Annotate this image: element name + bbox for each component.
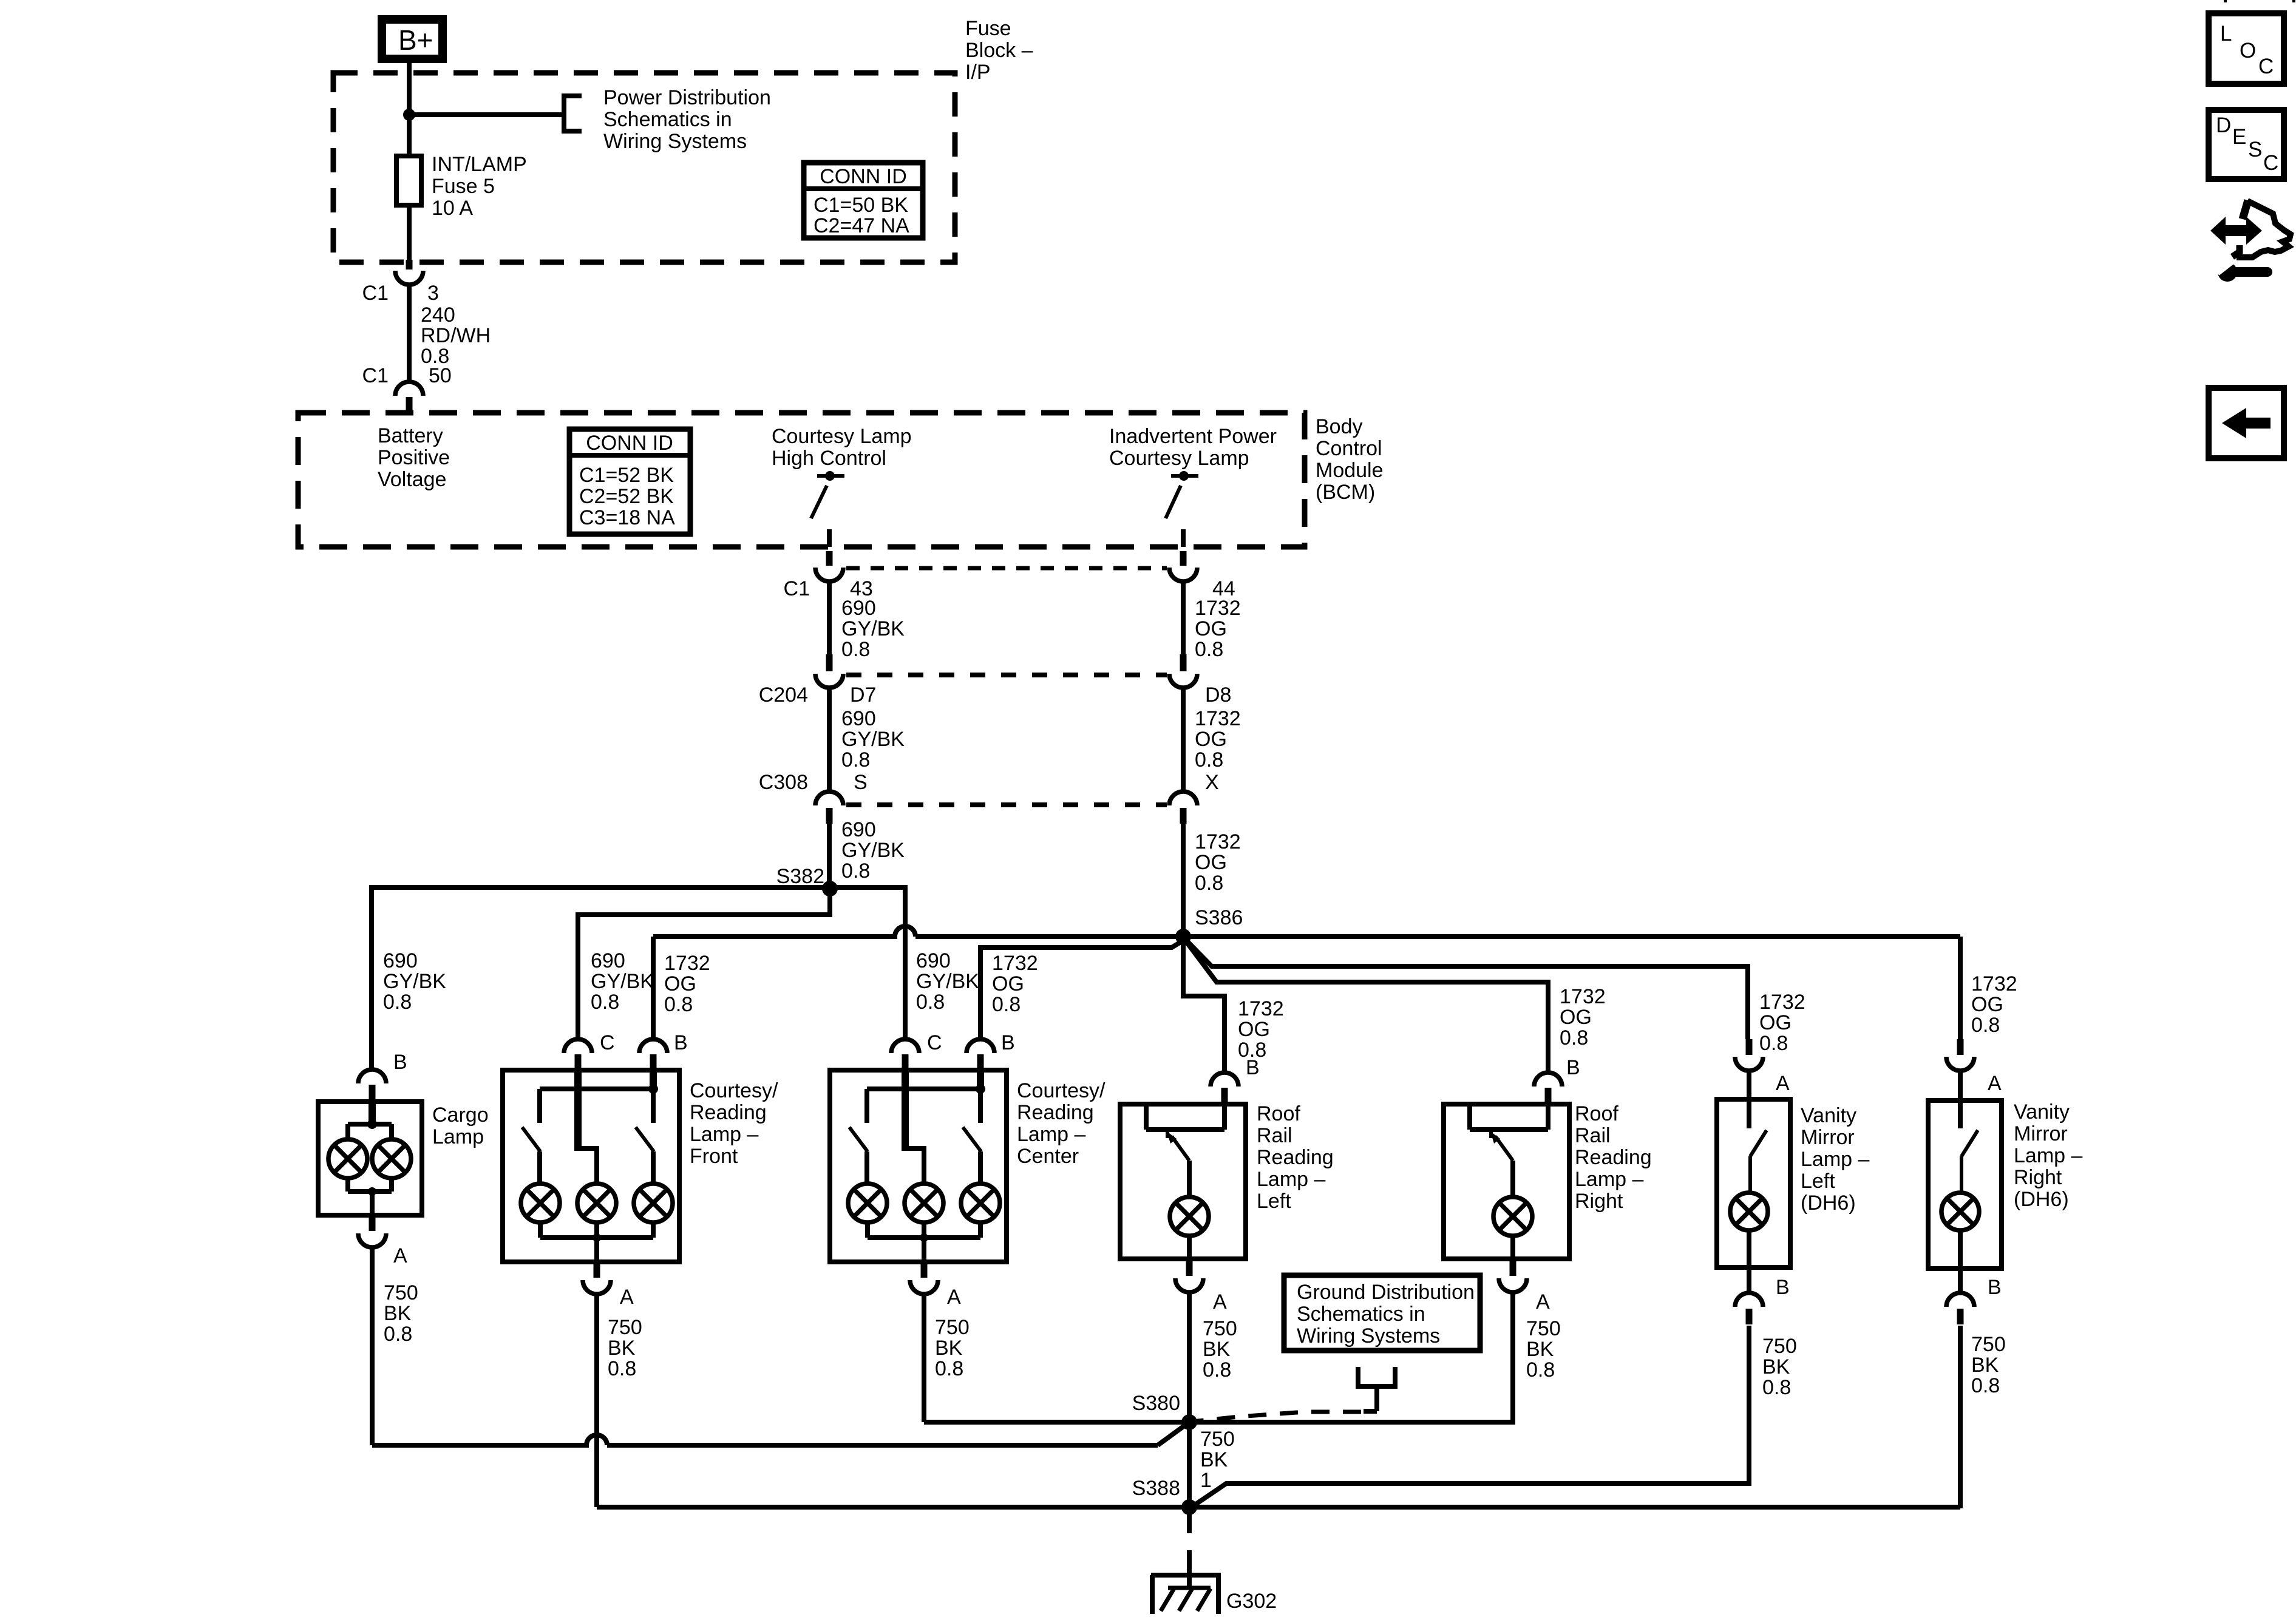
- wire S382 to front lamp C: [578, 889, 830, 1039]
- svg-text:S382: S382: [776, 865, 824, 888]
- wire S386 main bus: [653, 926, 1960, 937]
- svg-text:GY/BK: GY/BK: [841, 728, 905, 751]
- connector C1 pin 44: [1180, 551, 1187, 566]
- fuse F5 INT/LAMP: [396, 156, 421, 205]
- wire S388 bus: [597, 1505, 1960, 1510]
- svg-text:GY/BK: GY/BK: [841, 839, 905, 862]
- connector front pin B: [639, 1039, 667, 1053]
- svg-text:L: L: [2220, 22, 2232, 46]
- dashed connector link C308: [846, 802, 1167, 807]
- svg-text:1732: 1732: [664, 952, 710, 975]
- svg-text:Schematics in: Schematics in: [603, 108, 732, 131]
- svg-text:D: D: [2216, 114, 2231, 137]
- switch inadvertent power courtesy lamp: [1171, 474, 1198, 478]
- svg-text:Lamp –: Lamp –: [1257, 1168, 1325, 1191]
- svg-text:E: E: [2232, 125, 2246, 149]
- svg-text:C2=52 BK: C2=52 BK: [579, 485, 674, 508]
- svg-text:0.8: 0.8: [1203, 1358, 1231, 1381]
- svg-text:1732: 1732: [1560, 985, 1606, 1008]
- svg-text:A: A: [1776, 1072, 1790, 1095]
- wire B+ to fuse: [407, 63, 412, 266]
- svg-text:(DH6): (DH6): [1801, 1192, 1856, 1215]
- svg-text:C308: C308: [759, 771, 808, 794]
- svg-text:Fuse: Fuse: [965, 17, 1011, 40]
- vanity mirror lamp right: [1957, 1039, 1964, 1055]
- svg-text:BK: BK: [1971, 1354, 1999, 1377]
- svg-text:0.8: 0.8: [608, 1357, 636, 1380]
- svg-text:750: 750: [1203, 1317, 1237, 1340]
- wire center 750 BK: [922, 1294, 926, 1422]
- svg-text:INT/LAMP: INT/LAMP: [432, 153, 527, 176]
- svg-text:1732: 1732: [1759, 991, 1805, 1014]
- dotted connector link C1: [846, 566, 1167, 571]
- svg-text:C2=47 NA: C2=47 NA: [813, 214, 909, 237]
- reference bracket power distribution: [564, 96, 582, 131]
- svg-text:A: A: [1988, 1072, 2002, 1095]
- svg-text:Reading: Reading: [690, 1101, 767, 1124]
- svg-text:Ground Distribution: Ground Distribution: [1297, 1281, 1475, 1304]
- wire S382 to cargo lamp: [372, 887, 830, 1070]
- svg-text:B: B: [1988, 1276, 2002, 1299]
- svg-text:O: O: [2240, 39, 2256, 63]
- splice S386: [1175, 929, 1191, 944]
- center lamp box: [830, 1070, 1007, 1262]
- svg-text:BK: BK: [1526, 1338, 1554, 1361]
- svg-text:690: 690: [841, 818, 876, 841]
- wire S382 to center lamp C: [830, 887, 905, 1039]
- connector C308 pin X: [1169, 792, 1197, 805]
- bulb front left: [521, 1184, 560, 1222]
- wire 1732 OG C308 to S386: [1181, 824, 1186, 937]
- icon DESC box: [2209, 110, 2284, 179]
- connector C1 pin 50 (BCM): [395, 382, 423, 396]
- svg-text:Module: Module: [1316, 459, 1384, 482]
- svg-text:D7: D7: [850, 683, 876, 707]
- svg-text:Right: Right: [2014, 1166, 2062, 1189]
- svg-text:A: A: [1536, 1290, 1550, 1314]
- wire 1732 OG C204 to C308: [1181, 688, 1186, 792]
- svg-text:Left: Left: [1801, 1170, 1835, 1193]
- svg-text:Mirror: Mirror: [2014, 1122, 2068, 1145]
- svg-text:C1=52 BK: C1=52 BK: [579, 464, 674, 487]
- svg-text:OG: OG: [1238, 1018, 1270, 1041]
- ground G302 symbol: [1151, 1573, 1221, 1578]
- svg-text:C1: C1: [362, 282, 389, 305]
- connector C1 pin 3 (fuse block): [406, 260, 413, 269]
- connector center pin B: [966, 1039, 994, 1053]
- center lamp bottom bus: [865, 1221, 870, 1238]
- front lamp switch right: [651, 1089, 656, 1123]
- splice S382: [822, 881, 838, 897]
- svg-text:Reading: Reading: [1257, 1146, 1334, 1169]
- connector front pin A: [594, 1263, 600, 1278]
- svg-text:OG: OG: [992, 972, 1024, 995]
- bulb front middle: [577, 1184, 616, 1222]
- splice S380: [1181, 1414, 1197, 1430]
- svg-text:690: 690: [383, 949, 418, 972]
- svg-text:690: 690: [841, 707, 876, 730]
- svg-text:C1: C1: [784, 577, 810, 600]
- connector C204 pin D7: [826, 654, 833, 671]
- svg-text:750: 750: [1200, 1428, 1235, 1451]
- svg-text:C1: C1: [362, 364, 389, 387]
- svg-text:Mirror: Mirror: [1801, 1126, 1855, 1149]
- wire 690 GY/BK C204 to C308: [827, 688, 832, 792]
- dashed connector link C204: [846, 673, 1167, 677]
- svg-text:750: 750: [1526, 1317, 1561, 1340]
- icon diagnostic tool: [2210, 217, 2262, 245]
- svg-text:C: C: [2263, 151, 2278, 175]
- svg-text:Reading: Reading: [1575, 1146, 1652, 1169]
- svg-text:BK: BK: [935, 1337, 963, 1360]
- svg-text:C204: C204: [759, 683, 808, 707]
- wire front 750 BK: [594, 1294, 599, 1507]
- svg-text:OG: OG: [1195, 617, 1227, 640]
- CONN ID table fuse block: [804, 163, 923, 238]
- svg-text:CONN ID: CONN ID: [586, 432, 673, 455]
- svg-text:OG: OG: [1759, 1011, 1792, 1034]
- svg-text:Vanity: Vanity: [1801, 1104, 1856, 1127]
- wire S386 to roof rail left: [1183, 937, 1224, 1073]
- ground distribution reference box: [1284, 1275, 1480, 1351]
- wire S386 to vanity right (drop): [1958, 937, 1963, 1039]
- svg-text:1732: 1732: [1238, 997, 1284, 1020]
- svg-text:10 A: 10 A: [432, 197, 473, 220]
- svg-text:C1=50 BK: C1=50 BK: [813, 194, 908, 217]
- svg-text:S380: S380: [1132, 1392, 1180, 1415]
- connector front pin C: [564, 1039, 592, 1053]
- svg-text:OG: OG: [1560, 1006, 1592, 1029]
- svg-text:0.8: 0.8: [1195, 638, 1223, 661]
- center lamp internal B bus: [977, 1070, 984, 1089]
- svg-text:A: A: [620, 1286, 634, 1309]
- svg-text:OG: OG: [664, 972, 696, 995]
- svg-text:CONN ID: CONN ID: [820, 165, 907, 188]
- svg-text:Courtesy/: Courtesy/: [1017, 1079, 1106, 1102]
- svg-text:3: 3: [427, 282, 439, 305]
- svg-text:Fuse 5: Fuse 5: [432, 175, 495, 198]
- svg-text:Vanity: Vanity: [2014, 1100, 2070, 1124]
- wire roof left 750 BK: [1187, 1292, 1192, 1422]
- wire to power distribution reference: [409, 112, 564, 117]
- svg-text:690: 690: [916, 949, 951, 972]
- node junction on B+ wire: [403, 109, 415, 121]
- svg-text:OG: OG: [1971, 993, 2003, 1016]
- svg-text:Inadvertent Power: Inadvertent Power: [1109, 425, 1277, 448]
- svg-text:Battery: Battery: [378, 424, 443, 447]
- svg-text:Roof: Roof: [1575, 1102, 1618, 1125]
- svg-text:Right: Right: [1575, 1190, 1623, 1213]
- svg-text:B: B: [1776, 1276, 1790, 1299]
- svg-text:750: 750: [608, 1316, 642, 1339]
- connector C204 pin D8: [1180, 654, 1187, 671]
- svg-text:Lamp –: Lamp –: [1801, 1148, 1869, 1171]
- svg-text:0.8: 0.8: [383, 991, 412, 1014]
- svg-text:Left: Left: [1257, 1190, 1291, 1213]
- ground reference bracket: [1358, 1367, 1395, 1386]
- svg-text:Block –: Block –: [965, 39, 1033, 62]
- svg-text:A: A: [947, 1286, 961, 1309]
- svg-text:Lamp –: Lamp –: [690, 1123, 758, 1146]
- svg-text:OG: OG: [1195, 728, 1227, 751]
- svg-text:D8: D8: [1205, 683, 1231, 707]
- svg-text:X: X: [1205, 771, 1219, 794]
- front lamp switch left: [522, 1127, 540, 1151]
- svg-text:RD/WH: RD/WH: [421, 324, 491, 347]
- svg-text:High Control: High Control: [772, 447, 886, 470]
- switch courtesy lamp high control: [817, 474, 844, 478]
- svg-text:0.8: 0.8: [1195, 748, 1223, 771]
- svg-text:S: S: [2248, 138, 2262, 161]
- svg-text:B: B: [393, 1051, 407, 1074]
- svg-text:(BCM): (BCM): [1316, 481, 1375, 504]
- svg-text:Rail: Rail: [1257, 1124, 1292, 1147]
- cargo lamp internal wiring: [369, 1100, 376, 1124]
- wire 240 RD/WH: [407, 285, 412, 382]
- center lamp internal C path: [902, 1070, 909, 1151]
- icon back arrow box: [2209, 388, 2284, 458]
- svg-text:1732: 1732: [1971, 972, 2017, 995]
- svg-text:750: 750: [935, 1316, 970, 1339]
- svg-text:C3=18 NA: C3=18 NA: [579, 506, 675, 529]
- svg-text:1732: 1732: [1195, 597, 1241, 620]
- front lamp bottom bus: [538, 1221, 543, 1238]
- svg-text:Body: Body: [1316, 415, 1363, 438]
- connector C308 pin S: [815, 792, 843, 805]
- front lamp box: [503, 1070, 679, 1262]
- svg-text:Courtesy Lamp: Courtesy Lamp: [772, 425, 912, 448]
- svg-text:S388: S388: [1132, 1477, 1180, 1500]
- svg-text:Center: Center: [1017, 1145, 1079, 1168]
- svg-text:0.8: 0.8: [992, 993, 1021, 1016]
- CONN ID table BCM: [569, 429, 690, 534]
- svg-text:0.8: 0.8: [1560, 1026, 1588, 1049]
- svg-text:Power Distribution: Power Distribution: [603, 86, 771, 109]
- wire S386 to roof rail right: [1186, 941, 1548, 1073]
- wire 690 GY/BK BCM to C204: [827, 581, 832, 654]
- svg-text:0.8: 0.8: [1195, 872, 1223, 895]
- dashed link to S380: [1192, 1412, 1361, 1422]
- connector cargo pin A: [369, 1216, 376, 1231]
- center lamp switch left: [849, 1127, 868, 1151]
- connector C1 pin 43: [826, 551, 833, 566]
- power feed B+ terminal box: [382, 19, 443, 59]
- bulb center middle: [905, 1184, 943, 1222]
- svg-text:BK: BK: [384, 1302, 412, 1325]
- svg-text:0.8: 0.8: [841, 638, 870, 661]
- roof rail reading lamp right: [1534, 1073, 1562, 1086]
- cargo lamp box: [318, 1102, 422, 1215]
- svg-text:Cargo: Cargo: [432, 1103, 489, 1127]
- wire S380 bus: [924, 1420, 1513, 1425]
- wire cargo 750 BK: [370, 1247, 375, 1445]
- wire 1732 OG BCM to C204: [1181, 581, 1186, 654]
- svg-text:750: 750: [1971, 1333, 2006, 1356]
- bulb center left: [848, 1184, 887, 1222]
- bulb cargo left: [328, 1139, 367, 1178]
- BCM dashed box: [298, 413, 1305, 547]
- svg-text:C: C: [2258, 55, 2274, 78]
- svg-text:Wiring Systems: Wiring Systems: [1297, 1324, 1440, 1347]
- wire roof right 750 BK: [1189, 1292, 1513, 1422]
- wire S386 to vanity left: [1184, 938, 1748, 1039]
- svg-text:Lamp –: Lamp –: [1575, 1168, 1643, 1191]
- svg-text:0.8: 0.8: [841, 748, 870, 771]
- svg-text:B: B: [1566, 1056, 1580, 1079]
- svg-text:B: B: [1246, 1056, 1260, 1079]
- svg-text:Courtesy Lamp: Courtesy Lamp: [1109, 447, 1249, 470]
- svg-text:BK: BK: [1203, 1338, 1231, 1361]
- svg-text:Front: Front: [690, 1145, 738, 1168]
- svg-text:Lamp –: Lamp –: [1017, 1123, 1085, 1146]
- svg-text:Control: Control: [1316, 437, 1382, 460]
- svg-text:0.8: 0.8: [1971, 1014, 2000, 1037]
- svg-text:0.8: 0.8: [384, 1323, 412, 1346]
- wire vanity left 750 BK: [1190, 1326, 1749, 1508]
- svg-text:Positive: Positive: [378, 446, 450, 469]
- connector center pin A: [921, 1263, 928, 1278]
- wire cargo/front ground bus: [372, 1435, 1158, 1445]
- svg-text:0.8: 0.8: [1762, 1376, 1791, 1399]
- svg-text:B+: B+: [398, 24, 433, 56]
- wire S380 to S388: [1187, 1422, 1192, 1507]
- svg-text:Reading: Reading: [1017, 1101, 1094, 1124]
- svg-text:240: 240: [421, 303, 455, 327]
- wire 690 GY/BK C308 to S382: [827, 824, 832, 889]
- svg-text:0.8: 0.8: [935, 1357, 963, 1380]
- svg-text:Lamp –: Lamp –: [2014, 1144, 2082, 1167]
- svg-text:GY/BK: GY/BK: [383, 970, 446, 993]
- fuse block I/P dashed box: [333, 73, 955, 262]
- svg-text:BK: BK: [1762, 1355, 1790, 1378]
- bulb front right: [634, 1184, 673, 1222]
- roof rail reading lamp left: [1211, 1073, 1238, 1086]
- svg-text:A: A: [393, 1244, 407, 1267]
- page corner tick left: [2224, 0, 2227, 2]
- svg-text:1732: 1732: [1195, 707, 1241, 730]
- svg-text:1732: 1732: [992, 952, 1038, 975]
- wire S388 to ground: [1187, 1507, 1192, 1533]
- svg-text:GY/BK: GY/BK: [591, 970, 654, 993]
- svg-text:Roof: Roof: [1257, 1102, 1300, 1125]
- svg-text:C: C: [600, 1031, 615, 1054]
- svg-text:C: C: [927, 1031, 942, 1054]
- svg-text:1732: 1732: [1195, 830, 1241, 853]
- svg-text:0.8: 0.8: [591, 991, 619, 1014]
- svg-text:0.8: 0.8: [916, 991, 945, 1014]
- svg-text:(DH6): (DH6): [2014, 1188, 2069, 1211]
- svg-text:750: 750: [1762, 1335, 1797, 1358]
- connector cargo pin B: [358, 1070, 386, 1083]
- svg-text:GY/BK: GY/BK: [841, 617, 905, 640]
- svg-text:Voltage: Voltage: [378, 468, 446, 491]
- bulb cargo right: [372, 1139, 411, 1178]
- center lamp switch right: [978, 1089, 983, 1123]
- svg-text:690: 690: [591, 949, 625, 972]
- svg-text:B: B: [674, 1031, 688, 1054]
- svg-text:0.8: 0.8: [1759, 1032, 1788, 1055]
- icon LOC box: [2209, 13, 2284, 84]
- svg-text:1: 1: [1200, 1469, 1212, 1492]
- svg-text:0.8: 0.8: [841, 859, 870, 883]
- svg-text:750: 750: [384, 1281, 418, 1304]
- front lamp internal B bus: [650, 1070, 657, 1089]
- svg-text:Rail: Rail: [1575, 1124, 1611, 1147]
- vanity mirror lamp left: [1746, 1039, 1753, 1055]
- svg-text:Wiring Systems: Wiring Systems: [603, 130, 747, 153]
- wire vanity right 750 BK: [1958, 1326, 1963, 1508]
- svg-text:0.8: 0.8: [1526, 1358, 1555, 1381]
- svg-text:G302: G302: [1226, 1590, 1277, 1613]
- connector center pin C: [891, 1039, 919, 1053]
- svg-text:0.8: 0.8: [1971, 1374, 2000, 1397]
- svg-text:OG: OG: [1195, 851, 1227, 874]
- svg-text:0.8: 0.8: [664, 993, 693, 1016]
- svg-text:BK: BK: [1200, 1448, 1228, 1471]
- front lamp internal C path: [574, 1070, 582, 1151]
- svg-text:I/P: I/P: [965, 61, 991, 84]
- svg-text:GY/BK: GY/BK: [916, 970, 979, 993]
- svg-text:B: B: [1001, 1031, 1015, 1054]
- page corner tick right: [2292, 0, 2295, 2]
- svg-text:Courtesy/: Courtesy/: [690, 1079, 778, 1102]
- wire S386 to center lamp B: [980, 942, 1181, 1039]
- svg-text:A: A: [1213, 1290, 1227, 1314]
- splice S388: [1181, 1499, 1197, 1515]
- svg-text:50: 50: [429, 364, 452, 387]
- wire front lamp B drop: [651, 937, 656, 1039]
- svg-text:BK: BK: [608, 1337, 636, 1360]
- svg-text:S386: S386: [1195, 906, 1243, 929]
- svg-text:690: 690: [841, 597, 876, 620]
- svg-text:S: S: [854, 771, 868, 794]
- bulb center right: [961, 1184, 1000, 1222]
- svg-text:Schematics in: Schematics in: [1297, 1303, 1425, 1326]
- svg-text:Lamp: Lamp: [432, 1125, 484, 1148]
